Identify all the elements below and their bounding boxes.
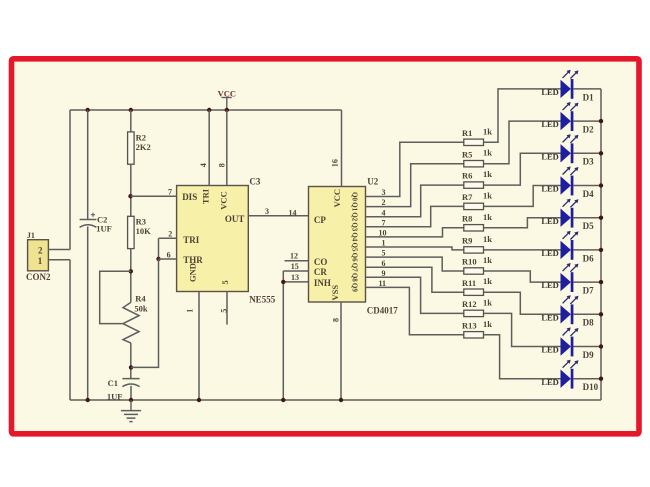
LED D2 [541,102,594,135]
wire: R3 to R4 [130,249,132,303]
wire: bottom ground rail [70,399,601,401]
svg-text:2: 2 [382,198,386,207]
svg-text:D3: D3 [583,157,594,167]
wire: Q9 pin 11 to R13 [366,287,464,334]
svg-text:C3: C3 [249,176,260,186]
svg-text:9: 9 [382,269,386,278]
svg-text:16: 16 [331,159,340,167]
svg-text:DIS: DIS [182,192,197,202]
wire: Q7 pin 6 to R11 [366,267,464,292]
ground symbol [121,400,141,422]
wire: Q1 pin 2 to R5 [366,164,464,207]
wire: Q2 pin 4 to R6 [366,185,464,217]
junction: D8 at right rail [599,312,603,316]
LED D7 [541,263,594,296]
wire: D7 cathode to right rail [573,281,601,283]
resistor R10 1k [462,255,492,274]
svg-text:5: 5 [220,280,230,284]
svg-text:LED: LED [541,184,558,194]
svg-text:4: 4 [199,163,208,167]
junction on VCC rail at pin4 riser [207,108,211,112]
wire: right LED common rail [600,89,602,400]
connector J1 (CON2) [26,231,51,282]
svg-text:1: 1 [382,239,386,248]
wire: R6 to LED D3 [484,153,561,185]
resistor R4 50k (trimmer zigzag) [123,293,148,343]
svg-text:R1: R1 [462,128,472,138]
wire: R5 to LED D2 [484,121,561,164]
svg-text:10K: 10K [136,226,152,236]
wire: D3 cathode to right rail [573,152,601,154]
svg-text:1k: 1k [483,126,492,136]
wire: C1 to ground rail [130,386,132,400]
svg-text:Q8: Q8 [350,273,358,282]
wire: Q5 pin 1 to R9 [366,247,464,250]
svg-text:D5: D5 [583,221,594,231]
wire: R4 wiper loop [100,271,131,323]
junction node B: R4/C1/THR [129,365,133,369]
svg-text:CR: CR [314,267,327,277]
svg-text:1k: 1k [483,276,492,286]
svg-text:R9: R9 [462,236,472,246]
LED D8 [541,295,594,328]
resistor R11 1k [462,276,492,295]
svg-text:D7: D7 [583,286,594,296]
svg-text:10: 10 [379,229,387,238]
svg-text:14: 14 [289,208,297,217]
junction: VSS at ground rail [339,398,343,402]
svg-text:LED: LED [541,280,558,290]
svg-text:R5: R5 [462,149,472,159]
svg-text:13: 13 [291,273,299,282]
svg-text:J1: J1 [27,231,35,240]
svg-text:7: 7 [168,188,172,197]
svg-text:1k: 1k [483,190,492,200]
resistor R2 2K2 [128,132,151,164]
wire: D1 cathode to right rail [573,88,601,90]
wire: J1 pin 1 stub [48,259,70,261]
wire: Q8 pin 9 to R12 [366,277,464,313]
svg-text:7: 7 [382,218,386,227]
wire: D6 cathode to right rail [573,249,601,251]
wire: C2 top lead [87,110,89,220]
junction: D10 at right rail [599,377,603,381]
wire: J1 pin 1 drop to ground rail [69,260,71,400]
svg-text:2K2: 2K2 [136,142,151,152]
svg-text:LED: LED [541,119,558,129]
wire: R2 to node A [130,164,132,216]
svg-text:Q7: Q7 [350,263,358,272]
svg-text:6: 6 [167,250,171,259]
junction: D9 at right rail [599,344,603,348]
svg-text:Q1: Q1 [350,202,358,211]
svg-text:1k: 1k [483,255,492,265]
svg-text:3: 3 [265,207,269,216]
resistor R3 10K [128,216,152,248]
resistor R1 1k [462,126,492,145]
junction: TRI/THR tie [156,257,160,261]
svg-text:1: 1 [38,256,43,266]
wire: CD4017 INH pin 13 stub [283,281,308,283]
wire: CD4017 CO pin 12 stub (open) [285,260,309,262]
wire: NE555 OUT pin 3 to CD4017 CP pin 14 [248,215,308,217]
svg-text:CON2: CON2 [26,272,51,282]
wire: VCC rail to R2 [130,110,132,132]
junction: R4 top tap [129,269,133,273]
junction on VCC rail at R2 [129,108,133,112]
wire: NE555 TRI pin 2 stub [159,237,177,239]
junction: D5 at right rail [599,216,603,220]
svg-text:R12: R12 [462,299,477,309]
svg-text:12: 12 [290,252,298,261]
svg-text:8: 8 [332,318,341,322]
svg-text:5: 5 [382,249,386,258]
wire: J1 pin 2 riser to VCC rail [69,110,71,250]
wire: R7 to LED D4 [484,186,561,207]
wire: NE555 pin 1 GND to ground rail [198,292,200,401]
LED D10 [541,360,598,393]
LED D6 [541,231,594,263]
svg-text:D2: D2 [583,125,594,135]
svg-text:U2: U2 [367,176,378,186]
svg-text:C1: C1 [108,378,118,388]
LED D4 [541,166,594,199]
svg-text:VCC: VCC [218,191,228,209]
svg-text:1k: 1k [483,297,492,307]
svg-text:1k: 1k [483,319,492,329]
svg-text:R6: R6 [462,171,472,181]
wire: NE555 pin 4 to VCC rail [208,110,210,186]
wire: CD4017 pin 16 to VCC rail [341,110,343,187]
svg-text:Q6: Q6 [350,253,358,262]
junction node A: R2/R3/DIS [128,194,132,198]
svg-text:8: 8 [217,163,226,167]
wire: C2 bottom lead [87,227,89,401]
wire: D10 cathode to right rail [573,378,601,380]
junction: D3 at right rail [599,151,603,155]
svg-text:6: 6 [382,259,386,268]
wire: CD4017 pin 8 VSS to ground rail [340,302,342,400]
op-amp timer U? NE555 (designator C3) [177,186,249,292]
wire: R9 to LED D6 [484,249,561,251]
wire: THR net down to node B [131,259,159,367]
wire: R8 to LED D5 [484,218,561,228]
power symbol VCC [218,89,236,111]
svg-text:NE555: NE555 [249,295,276,305]
svg-text:D10: D10 [583,382,599,392]
junction: INH tie [281,280,285,284]
junction: C2 at ground rail [86,398,90,402]
wire: R12 to LED D9 [484,313,561,346]
resistor R9 1k [462,234,492,253]
svg-text:2: 2 [168,230,172,239]
svg-text:D9: D9 [583,350,594,360]
svg-text:VCC: VCC [332,189,342,207]
resistor R8 1k [462,212,492,231]
svg-text:D4: D4 [583,189,594,199]
resistor R5 1k [462,148,492,167]
wire: top VCC rail [70,109,342,111]
wire: J1 pin 2 stub [48,249,70,251]
svg-text:GND: GND [187,263,197,282]
svg-text:Q9: Q9 [350,283,358,292]
junction: C1 at ground rail [129,398,133,402]
svg-text:TRI: TRI [201,188,211,204]
wire: R1 to LED D1 [484,89,561,142]
svg-text:1: 1 [185,309,194,313]
svg-text:R4: R4 [135,293,146,303]
svg-text:LED: LED [541,87,558,97]
wire: NE555 pin 8 to VCC rail [226,110,228,186]
junction on VCC rail at VCC stub [225,108,229,112]
svg-text:R3: R3 [136,216,146,226]
svg-text:2: 2 [38,245,43,255]
LED D1 [541,70,594,103]
svg-text:R13: R13 [462,320,477,330]
wire: R4 to node B [130,343,132,379]
wire: TRI to THR tie [158,238,160,259]
svg-text:R11: R11 [462,278,476,288]
wire: R13 to LED D10 [484,335,561,379]
svg-text:VSS: VSS [330,285,340,301]
wire: Q4 pin 10 to R8 [366,228,464,237]
wire: D8 cathode to right rail [573,313,601,315]
svg-text:OUT: OUT [225,214,245,224]
wire: R11 to LED D8 [484,292,561,314]
svg-text:5: 5 [219,309,228,313]
capacitor C1 1UF [107,378,140,401]
wire: D2 cathode to right rail [573,120,601,122]
svg-text:R10: R10 [462,257,477,267]
svg-text:Q2: Q2 [350,212,358,221]
svg-text:1UF: 1UF [107,391,123,401]
wire: CR/INH tie down to ground rail [282,271,284,400]
svg-text:1k: 1k [483,234,492,244]
junction: D2 at right rail [599,119,603,123]
svg-text:50k: 50k [134,304,148,314]
svg-text:1k: 1k [483,212,492,222]
svg-text:TRI: TRI [183,235,200,245]
LED D5 [541,199,594,232]
svg-text:Q5: Q5 [350,243,358,252]
svg-text:Q3: Q3 [350,222,358,231]
junction: D4 at right rail [599,183,603,187]
svg-text:1k: 1k [483,148,492,158]
wire: node A to NE555 DIS pin 7 [131,195,177,197]
junction: D7 at right rail [599,280,603,284]
svg-text:CP: CP [314,215,326,225]
resistor R12 1k [462,297,492,316]
svg-text:1k: 1k [483,169,492,179]
counter U2 CD4017 [309,187,366,303]
svg-text:D8: D8 [583,318,594,328]
wire: D9 cathode to right rail [573,346,601,348]
capacitor C2 1UF (polarized) [80,213,112,234]
wire: Q0 pin 3 to R1 [366,142,464,196]
junction: D6 at right rail [599,248,603,252]
svg-text:R7: R7 [462,192,473,202]
junction: NE555 GND at rail [197,398,201,402]
svg-text:11: 11 [379,279,387,288]
svg-text:15: 15 [291,262,299,271]
svg-text:CD4017: CD4017 [367,306,398,316]
svg-text:D6: D6 [583,253,594,263]
wire: NE555 pin 5 stub [226,292,228,325]
svg-text:4: 4 [382,208,386,217]
LED D9 [541,327,594,360]
svg-text:CO: CO [314,257,328,267]
wire: Q3 pin 7 to R7 [366,206,464,226]
svg-text:Q0: Q0 [350,192,358,201]
wire: Q6 pin 5 to R10 [366,257,464,271]
svg-text:LED: LED [541,345,558,355]
svg-text:Q4: Q4 [350,232,358,241]
resistor R7 1k [462,190,492,209]
wire: D5 cathode to right rail [573,217,601,219]
junction on VCC rail at C2 [86,108,90,112]
svg-text:LED: LED [541,312,558,322]
resistor R6 1k [462,169,492,188]
svg-text:D1: D1 [583,92,594,102]
wire: D4 cathode to right rail [573,185,601,187]
svg-text:VCC: VCC [218,89,236,99]
svg-text:LED: LED [541,248,558,258]
svg-text:LED: LED [541,377,558,387]
wire: NE555 THR pin 6 stub [159,258,177,260]
svg-text:R2: R2 [136,132,146,142]
svg-text:LED: LED [541,151,558,161]
wire: R10 to LED D7 [484,271,561,282]
svg-text:R8: R8 [462,213,472,223]
svg-text:3: 3 [382,188,386,197]
junction: INH net at ground rail [281,398,285,402]
svg-text:INH: INH [314,278,331,288]
wire: CD4017 CR pin 15 stub [283,270,308,272]
red border frame [12,59,640,434]
svg-text:1UF: 1UF [96,223,112,233]
LED D3 [541,134,594,167]
svg-text:LED: LED [541,216,558,226]
resistor R13 1k [462,319,492,338]
